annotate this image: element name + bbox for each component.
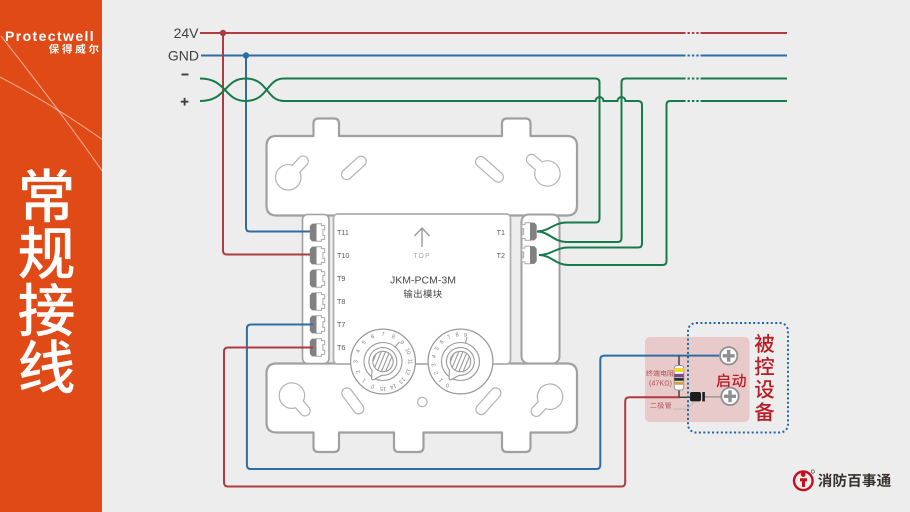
svg-text:7: 7 xyxy=(381,332,384,338)
fire119 logo figure xyxy=(800,472,807,487)
svg-text:3: 3 xyxy=(354,360,360,363)
label 启动 xyxy=(717,374,730,388)
resistor band black xyxy=(674,378,683,381)
terminal clamp T8 xyxy=(316,293,325,310)
keyhole top-right xyxy=(526,154,560,186)
wire T6 to device minus xyxy=(224,348,680,487)
rotary switch 16-position xyxy=(351,329,416,394)
wire plus-out continuation dashes xyxy=(688,100,700,102)
svg-text:T11: T11 xyxy=(337,228,349,237)
keyhole top-left xyxy=(276,156,309,190)
label plus xyxy=(181,98,189,106)
fire119 logo circle xyxy=(794,472,813,491)
label minus xyxy=(182,74,189,76)
screw terminal start (bottom) xyxy=(721,388,738,405)
wire T1 to minus-out xyxy=(537,79,686,243)
terminal clamp T2 xyxy=(522,246,531,263)
svg-text:GND: GND xyxy=(168,48,199,64)
junction dot 24V xyxy=(220,30,226,36)
svg-text:15: 15 xyxy=(380,385,386,391)
wire minus bus with twist to T1 xyxy=(200,79,600,232)
label 被控设备 xyxy=(755,334,775,353)
label 终端电阻 xyxy=(646,370,653,376)
svg-text:T8: T8 xyxy=(337,297,345,306)
wire 24V bus continuation dashes xyxy=(688,32,700,34)
slot bottom-left xyxy=(342,388,364,414)
module inner panel xyxy=(334,214,511,364)
vertical title 常规接线 xyxy=(22,168,71,222)
svg-text:T2: T2 xyxy=(497,251,505,260)
screw terminal plus (top) xyxy=(720,347,737,364)
svg-text:24V: 24V xyxy=(174,25,200,41)
slot top-right xyxy=(476,157,504,183)
terminal resistor leads xyxy=(678,356,680,398)
module back-plate top section xyxy=(267,119,578,216)
wire GND to T11 xyxy=(246,56,314,232)
svg-text:T6: T6 xyxy=(337,343,345,352)
保得威尔 logo subtext xyxy=(49,44,59,54)
resistor band gold xyxy=(674,382,683,385)
module back-plate bottom section xyxy=(267,364,578,453)
diode cathode band xyxy=(702,392,705,401)
TOP arrow xyxy=(415,228,430,247)
resistor band yellow xyxy=(674,368,683,372)
svg-text:T7: T7 xyxy=(337,320,345,329)
keyhole bottom-right xyxy=(531,384,563,416)
logo text 消防百事通 xyxy=(818,473,832,487)
keyhole bottom-left xyxy=(279,383,310,416)
label pointer line xyxy=(673,402,695,410)
terminal clamp T9 xyxy=(316,270,325,287)
terminal clamp T10 xyxy=(316,247,325,264)
wire T7 to device plus xyxy=(247,325,719,470)
resistor band violet xyxy=(674,374,683,377)
svg-text:T9: T9 xyxy=(337,274,345,283)
left terminal strip xyxy=(303,215,330,364)
terminal clamp T1 xyxy=(522,223,531,240)
wire 24V to T10 xyxy=(223,33,314,255)
svg-text:T10: T10 xyxy=(337,251,349,260)
orange sidebar banner xyxy=(0,0,102,512)
svg-text:JKM-PCM-3M: JKM-PCM-3M xyxy=(390,275,456,287)
svg-text:TOP: TOP xyxy=(413,253,430,260)
wire GND bus continuation dashes xyxy=(688,55,700,57)
diode lead left xyxy=(680,396,691,398)
fire119 registered mark xyxy=(811,470,814,473)
slot top-left xyxy=(342,156,367,179)
wire GND bus xyxy=(201,55,686,57)
wire T2 to plus-out xyxy=(539,101,686,265)
terminal clamp T6 xyxy=(316,339,325,356)
terminal resistor body xyxy=(674,366,683,391)
controlled device dashed border xyxy=(688,323,788,433)
terminal clamp T11 xyxy=(316,224,325,241)
svg-text:T1: T1 xyxy=(497,228,505,237)
svg-text:Protectwell: Protectwell xyxy=(5,28,95,44)
svg-text:(47KΩ): (47KΩ) xyxy=(649,379,672,388)
wire plus bus with twist to T2 xyxy=(200,79,642,256)
decorative arcs xyxy=(0,36,103,172)
slot bottom-right xyxy=(476,388,501,415)
label 二极管 xyxy=(650,403,656,408)
diode lead right xyxy=(705,396,722,398)
wire 24V bus xyxy=(200,32,686,34)
diode body xyxy=(690,392,701,401)
rotary switch 10-position xyxy=(428,329,493,394)
wire minus-out continuation dashes xyxy=(688,78,700,80)
controlled device pink panel xyxy=(645,337,750,422)
model label 输出模块 xyxy=(404,289,413,298)
small hole bottom-center xyxy=(418,397,427,406)
svg-text:11: 11 xyxy=(406,359,412,365)
junction dot GND xyxy=(243,52,249,58)
terminal clamp T7 xyxy=(316,316,325,333)
right terminal column xyxy=(522,215,560,364)
